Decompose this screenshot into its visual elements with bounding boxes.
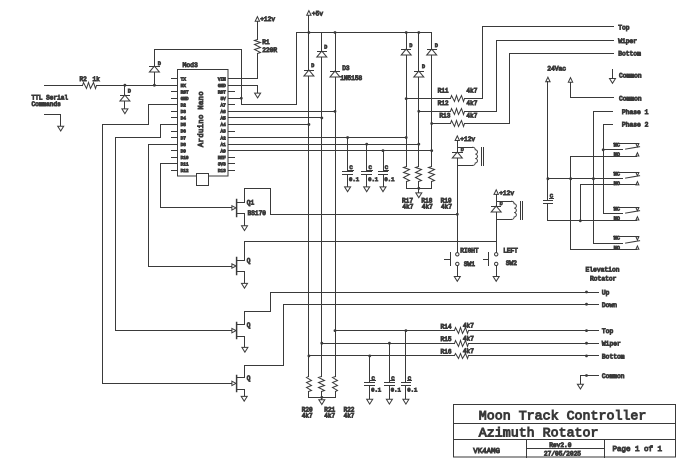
wire Phase2 column to K1b common: [604, 150, 623, 214]
svg-text:A7: A7: [221, 104, 227, 109]
svg-text:Elevation: Elevation: [586, 266, 620, 273]
power +12v (relay RL1): [455, 136, 475, 148]
node Top (elevation pot): [602, 328, 614, 335]
power 24Vac terminal 2 arrow: [568, 78, 572, 83]
svg-text:4k7: 4k7: [463, 323, 474, 330]
transistor Q2: [232, 257, 251, 274]
diode D (RL1 flyback): [452, 147, 463, 165]
svg-text:R11: R11: [438, 88, 449, 95]
resistor R11 4k7: [405, 88, 478, 102]
resistor R13 4k7: [430, 112, 477, 126]
node Bottom (azimuth pot): [618, 51, 641, 58]
svg-text:Q: Q: [247, 375, 251, 382]
svg-text:D: D: [128, 89, 131, 95]
diode D (A4 clamp): [304, 33, 314, 125]
svg-text:D: D: [422, 64, 425, 70]
transistor Q3: [232, 322, 251, 339]
svg-text:4k7: 4k7: [422, 204, 433, 211]
diode D (RL2 flyback): [491, 201, 502, 219]
svg-text:SW1: SW1: [464, 261, 475, 268]
svg-text:0.1: 0.1: [349, 176, 360, 183]
wire K2a NO feed: [581, 185, 637, 221]
svg-text:R12: R12: [438, 100, 449, 107]
svg-text:D: D: [311, 63, 314, 69]
title cell VK4AMG: [473, 448, 500, 456]
svg-text:RST: RST: [181, 90, 189, 95]
capacitor C 0.1 (A-line bypass at x=383.0): [379, 151, 396, 188]
title text Azimuth Rotator: [479, 426, 599, 441]
ground (bypass cap): [380, 187, 386, 192]
node Phase 2: [604, 122, 649, 150]
node Common (elevation pot) to ground: [581, 373, 625, 385]
wire Q4 source to ground: [244, 390, 246, 397]
power +12v supply arrow: [255, 16, 275, 39]
wire 24Vac-2 to Common terminal: [571, 83, 614, 98]
svg-text:NC: NC: [614, 207, 620, 213]
svg-text:Mod3: Mod3: [183, 62, 199, 69]
diode D (A0 divider clamp): [427, 33, 438, 167]
ground (bypass cap): [386, 399, 392, 404]
wire A5 pin to clamp column: [235, 117, 324, 120]
svg-text:+12v: +12v: [499, 190, 514, 197]
wire TTL input to R2: [45, 85, 83, 87]
resistor R22 4k7: [333, 377, 355, 420]
relay contact K1a (group 1): [614, 143, 640, 159]
wire Q1 drain to relay RL1: [245, 189, 459, 216]
wire R2 to RX pin: [97, 85, 172, 87]
wire K1a NO feed: [571, 157, 637, 179]
title cell Rev2.0: [549, 442, 572, 449]
wire R15 to Wiper terminal: [388, 342, 599, 345]
svg-text:+12v: +12v: [460, 136, 475, 143]
svg-text:Arduino Nano: Arduino Nano: [198, 91, 206, 147]
svg-text:A0: A0: [221, 149, 227, 154]
wire A1 row: [235, 143, 421, 146]
svg-text:5V: 5V: [221, 97, 227, 102]
svg-text:Common: Common: [619, 73, 642, 80]
resistor R14 4k7: [334, 323, 475, 334]
svg-text:NO: NO: [614, 245, 620, 251]
svg-text:D: D: [158, 61, 161, 67]
svg-text:D: D: [435, 43, 438, 49]
svg-text:Q1: Q1: [247, 199, 255, 206]
node Wiper (elevation pot): [602, 341, 621, 348]
ground (Q1 source): [242, 226, 248, 231]
svg-text:Top: Top: [618, 25, 630, 32]
svg-text:Rev2.0: Rev2.0: [549, 442, 572, 449]
svg-text:D: D: [409, 43, 412, 49]
wire Q4 drain to Down terminal: [245, 303, 599, 378]
title cell Page 1 of 1: [613, 446, 663, 454]
resistor R2 1k: [80, 76, 101, 89]
svg-text:Common: Common: [602, 373, 625, 380]
svg-text:Wiper: Wiper: [618, 38, 637, 45]
switch SW2 LEFT pushbutton: [484, 247, 519, 276]
diode D (RX clamp to +5V): [149, 50, 161, 87]
svg-text:0.1: 0.1: [368, 176, 379, 183]
relay contact K2b (group 4): [614, 236, 640, 252]
svg-text:LEFT: LEFT: [503, 247, 518, 254]
power 24Vac terminal 1 arrow: [546, 77, 550, 82]
ground (pot common): [577, 384, 583, 389]
svg-text:D: D: [324, 45, 327, 51]
svg-text:D3: D3: [342, 65, 350, 72]
svg-text:D12: D12: [181, 169, 189, 174]
svg-text:4k7: 4k7: [466, 88, 477, 95]
node Bottom (elevation pot): [602, 353, 625, 360]
svg-text:NC: NC: [614, 236, 620, 242]
svg-text:NC: NC: [614, 171, 620, 177]
svg-text:D: D: [461, 147, 464, 153]
node Wiper (azimuth pot): [618, 38, 637, 45]
node 24Vac supply: [547, 66, 566, 73]
wire R16 to Bottom terminal: [368, 355, 598, 358]
svg-text:4k7: 4k7: [466, 112, 477, 119]
resistor R19 4k7: [429, 167, 453, 211]
svg-text:Down: Down: [602, 302, 617, 309]
diode D (A1 divider clamp): [414, 31, 425, 166]
svg-text:4k7: 4k7: [463, 335, 474, 342]
node Down (elevation): [602, 302, 617, 309]
wire GND pin to ground: [235, 86, 258, 94]
svg-text:1k: 1k: [93, 76, 101, 83]
wire Q3 source to ground: [244, 337, 246, 348]
wire 24Vac-1 down to phase bus: [547, 82, 550, 181]
wire R14 to Top terminal: [405, 329, 599, 332]
ground (Q4 source): [241, 396, 247, 401]
title cell 27/05/2025: [544, 450, 581, 457]
svg-text:GND: GND: [181, 97, 189, 102]
wire A4 column down to R16/R20: [308, 125, 310, 377]
ground Common reference arrow: [610, 70, 642, 84]
capacitor C 0.1 (A-line bypass at x=366.7): [362, 145, 379, 188]
wire Phase1 column to K2b common: [594, 179, 623, 244]
ground (SW1): [454, 277, 460, 282]
svg-text:A4: A4: [221, 123, 227, 128]
wire A6 pin to clamp column: [235, 110, 337, 113]
svg-text:A6: A6: [221, 110, 227, 115]
wire A4 pin to clamp column: [235, 123, 311, 126]
diode D (RX clamp to ground): [120, 84, 131, 109]
ground (bypass cap): [367, 399, 373, 404]
wire R12 to Wiper terminal: [465, 41, 614, 112]
node Top (azimuth pot): [618, 25, 630, 32]
svg-text:R14: R14: [441, 323, 452, 330]
diode D (A2 divider clamp): [401, 31, 412, 166]
svg-text:R2: R2: [80, 76, 88, 83]
svg-text:A3: A3: [221, 130, 227, 135]
relay RL1 coil: [458, 147, 484, 165]
diode D (A5 clamp): [317, 33, 327, 118]
title text Moon Track Controller: [479, 408, 647, 423]
wire Phase2 to K1a common: [602, 148, 623, 151]
svg-text:D13: D13: [218, 169, 226, 174]
ground (SW2): [493, 277, 499, 282]
node TTL Serial Commands input: [32, 95, 69, 108]
svg-text:4k7: 4k7: [441, 204, 452, 211]
svg-text:3V3: 3V3: [218, 162, 226, 167]
svg-text:D5: D5: [181, 123, 187, 128]
wire D2 pin to Q4 gate: [103, 105, 234, 384]
ground (bypass cap): [345, 187, 351, 192]
svg-text:VIN: VIN: [218, 77, 226, 82]
wire R13 to Bottom terminal: [465, 54, 614, 124]
svg-text:Page 1 of 1: Page 1 of 1: [613, 446, 663, 454]
ground (Q3 source): [242, 347, 248, 352]
power +5v supply arrow: [307, 10, 324, 34]
wire Q2 drain to relay RL2: [245, 242, 497, 261]
svg-text:NO: NO: [614, 216, 620, 222]
wire A2 row: [235, 136, 408, 139]
wire RL2 coil to SW2: [496, 220, 498, 253]
node Phase 1: [594, 109, 649, 178]
svg-text:+12v: +12v: [260, 16, 275, 23]
svg-text:D4: D4: [181, 117, 187, 122]
wire NO chain to K2b NO row: [571, 179, 637, 250]
svg-text:BS170: BS170: [248, 210, 267, 217]
svg-text:D6: D6: [181, 130, 187, 135]
svg-text:Commands: Commands: [32, 101, 62, 108]
wire clamp diode to 5V pin jog: [155, 50, 242, 99]
capacitor C 0.1 (A-line bypass at x=347.6): [343, 138, 360, 188]
svg-text:VK4AMG: VK4AMG: [473, 448, 500, 456]
wire A5 column down to R15/R21: [321, 118, 323, 377]
wire R11 to Top terminal: [465, 27, 614, 99]
svg-text:4k7: 4k7: [463, 348, 474, 355]
resistor R17 4k7: [402, 167, 414, 211]
svg-text:D7: D7: [181, 136, 187, 141]
svg-text:D9: D9: [181, 149, 187, 154]
svg-text:Bottom: Bottom: [602, 353, 625, 360]
svg-text:D8: D8: [181, 143, 187, 148]
ground (bypass cap): [364, 187, 370, 192]
resistor R21 4k7: [319, 377, 336, 420]
svg-text:Common: Common: [619, 95, 642, 102]
svg-text:RST: RST: [218, 90, 226, 95]
ground (Q2 source): [242, 283, 248, 288]
wire A6 column down to R14/R22: [335, 112, 337, 377]
svg-text:0.1: 0.1: [384, 176, 395, 183]
wire phase bus to K2a common: [548, 177, 623, 180]
capacitor C 0.1 (elevation line bypass at x=389.4): [385, 344, 402, 400]
transistor Q1 BS170: [232, 199, 266, 217]
wire D11 pin to Q1 gate: [161, 164, 232, 208]
resistor R12 4k7: [417, 100, 477, 114]
svg-text:24Vac: 24Vac: [547, 66, 566, 73]
svg-text:D11: D11: [181, 162, 189, 167]
svg-text:REF: REF: [218, 156, 226, 161]
ground (divider): [416, 193, 422, 198]
resistor R1 220R: [255, 39, 278, 54]
capacitor C 0.1 (elevation line bypass at x=405.9): [402, 331, 419, 400]
ground TTL common bracket: [45, 115, 64, 132]
svg-text:R13: R13: [439, 112, 450, 119]
ground (Arduino GND): [255, 93, 261, 98]
svg-text:Moon Track Controller: Moon Track Controller: [479, 408, 647, 423]
svg-text:Rotator: Rotator: [590, 275, 617, 282]
resistor R20 4k7: [302, 377, 313, 420]
relay contact K1b (group 3): [614, 207, 640, 223]
svg-text:RX: RX: [181, 84, 187, 89]
node Common (elevation AC): [619, 95, 642, 102]
module Mod3 Arduino Nano: [172, 62, 235, 185]
title block frame: [454, 405, 676, 458]
svg-text:SW2: SW2: [506, 260, 517, 267]
svg-text:A1: A1: [221, 143, 227, 148]
svg-text:A2: A2: [221, 136, 227, 141]
ground (bypass cap): [403, 399, 409, 404]
transistor Q4: [232, 375, 251, 392]
svg-text:Q: Q: [247, 322, 251, 329]
svg-text:NC: NC: [614, 143, 620, 149]
relay contact K2a (group 2): [614, 171, 640, 187]
svg-text:Phase 1: Phase 1: [622, 109, 649, 116]
svg-text:R16: R16: [441, 349, 452, 356]
diode D3 1N5158 (A6 clamp): [330, 31, 362, 111]
svg-text:Q: Q: [247, 257, 251, 264]
node Up (elevation): [602, 290, 610, 297]
svg-text:D2: D2: [181, 104, 187, 109]
ground (RX clamp): [122, 109, 128, 114]
svg-text:4k7: 4k7: [466, 100, 477, 107]
svg-text:0.1: 0.1: [407, 387, 418, 394]
svg-text:D3: D3: [181, 110, 187, 115]
svg-text:220R: 220R: [262, 47, 277, 54]
svg-text:GND: GND: [218, 84, 226, 89]
svg-text:NO: NO: [614, 152, 620, 158]
wire D8 pin to Q2 gate: [149, 145, 232, 267]
wire A0 row: [235, 149, 434, 152]
wire +5v rail: [297, 32, 432, 34]
ground (pulldowns): [319, 400, 325, 405]
wire cap bottom to K1b NO row: [548, 219, 637, 222]
wire divider bottoms join: [407, 187, 432, 193]
svg-text:Up: Up: [602, 290, 610, 297]
svg-text:4k7: 4k7: [344, 412, 355, 419]
svg-text:Bottom: Bottom: [618, 51, 641, 58]
svg-text:R15: R15: [441, 336, 452, 343]
svg-text:Wiper: Wiper: [602, 341, 621, 348]
capacitor C 0.1 (elevation line bypass at x=369.7): [365, 356, 382, 400]
svg-text:4k7: 4k7: [402, 204, 413, 211]
svg-text:RIGHT: RIGHT: [460, 247, 479, 254]
wire D5 pin to Q3 gate: [116, 125, 232, 331]
capacitor C (phase shift): [544, 179, 554, 221]
svg-text:Phase 2: Phase 2: [622, 122, 649, 129]
svg-text:+5v: +5v: [312, 10, 323, 17]
relay RL2 coil: [497, 201, 523, 219]
resistor R18 4k7: [416, 167, 434, 211]
svg-text:27/05/2025: 27/05/2025: [544, 450, 581, 457]
wire RL1 coil to SW1: [457, 166, 459, 253]
wire pulldown bottoms join: [309, 396, 336, 400]
resistor R15 4k7: [320, 335, 474, 346]
svg-text:1N5158: 1N5158: [340, 75, 362, 82]
switch SW1 RIGHT pushbutton: [445, 247, 479, 276]
svg-text:Azimuth Rotator: Azimuth Rotator: [479, 426, 599, 441]
wire R1 to VIN: [235, 54, 258, 79]
wire Q3 drain to Up terminal: [245, 291, 599, 325]
svg-text:4k7: 4k7: [302, 412, 313, 419]
svg-text:Top: Top: [602, 328, 614, 335]
wire Q1 source to ground: [244, 214, 246, 226]
power +12v (relay RL2): [494, 190, 514, 202]
svg-text:TX: TX: [181, 77, 187, 82]
wire Q2 source to ground: [244, 272, 246, 284]
svg-text:D: D: [500, 201, 503, 207]
svg-text:0.1: 0.1: [371, 387, 382, 394]
svg-text:0.1: 0.1: [391, 387, 402, 394]
wire 5V pin to +5v rail: [235, 33, 297, 105]
svg-text:4k7: 4k7: [324, 412, 335, 419]
svg-text:A5: A5: [221, 117, 227, 122]
svg-text:D10: D10: [181, 156, 189, 161]
node Elevation Rotator label: [586, 266, 620, 282]
svg-text:R1: R1: [262, 39, 270, 46]
resistor R16 4k7: [308, 348, 475, 358]
